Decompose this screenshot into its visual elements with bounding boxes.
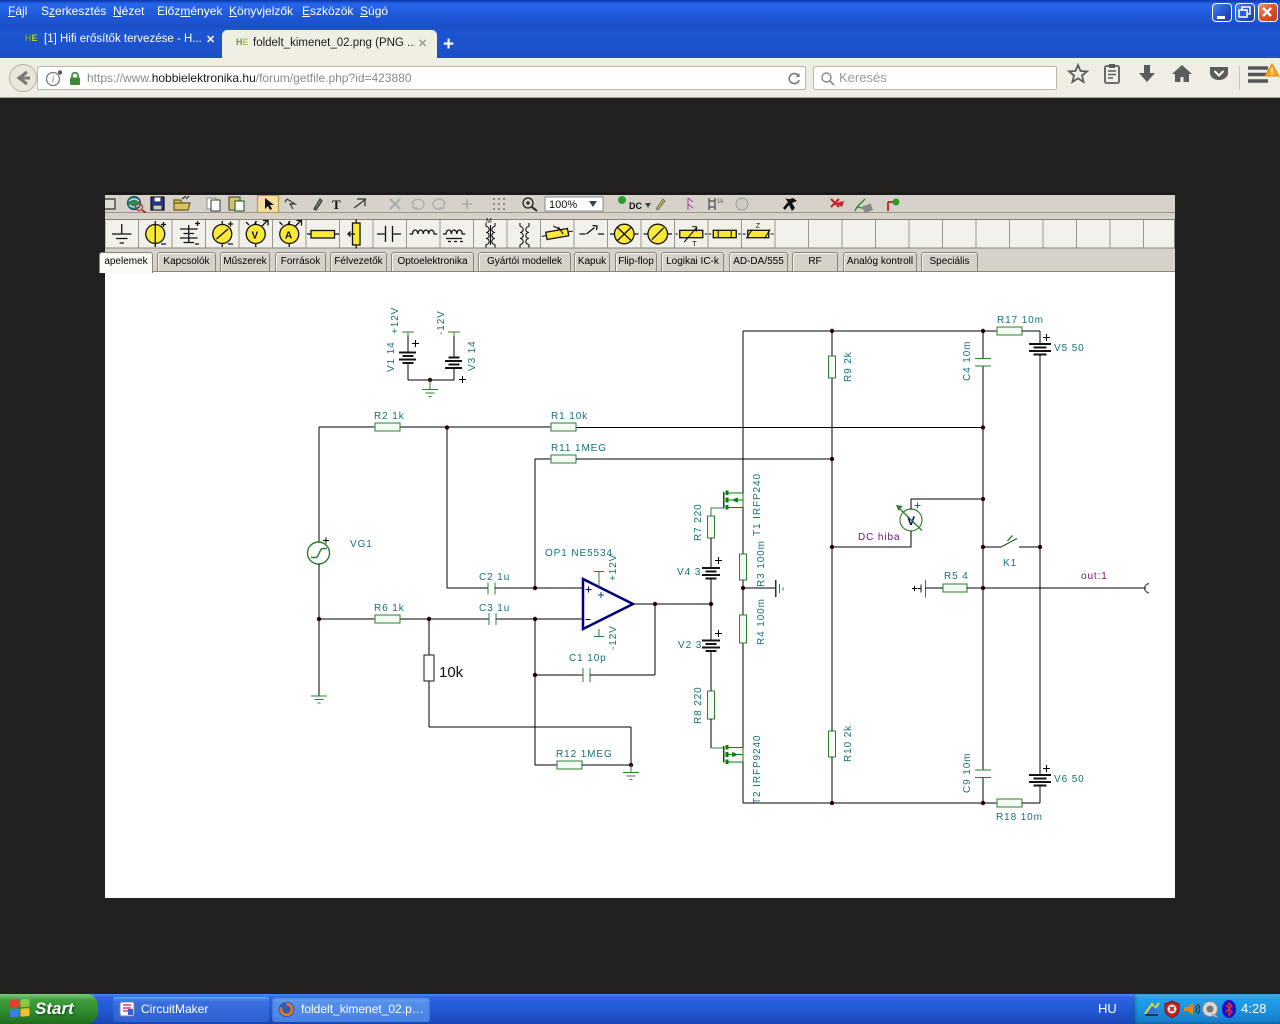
- svg-text:i: i: [52, 75, 55, 86]
- Tab strip: [0, 28, 1280, 58]
- wire voltmeter - lead: [830, 531, 911, 549]
- Navigation toolbar: [0, 58, 1280, 98]
- svg-text:-12V: -12V: [608, 625, 619, 650]
- svg-text:V6 50: V6 50: [1054, 774, 1085, 785]
- ground at VG1/R6: [311, 696, 327, 703]
- battery V4 3: [677, 557, 722, 604]
- svg-text:T1 IRFP240: T1 IRFP240: [752, 473, 763, 536]
- svg-text:A: A: [285, 231, 292, 242]
- resistor R5 4: [926, 571, 986, 592]
- svg-text:10k: 10k: [439, 664, 464, 681]
- resistor R9 2k: [829, 351, 855, 382]
- battery V2 3: [678, 604, 722, 691]
- ground at output node: [741, 580, 783, 597]
- resistor R2 1k: [374, 411, 405, 431]
- ground (supply common): [422, 378, 438, 397]
- svg-text:C9 10m: C9 10m: [962, 753, 973, 793]
- svg-text:K1: K1: [1003, 558, 1017, 569]
- battery V6 50: [1029, 765, 1085, 803]
- capacitor C1 10p: [533, 604, 655, 682]
- resistor R3 100m: [740, 540, 768, 587]
- resistor 10k (offset trim): [424, 655, 631, 765]
- wire voltmeter + lead: [911, 497, 985, 509]
- svg-text:!: !: [1271, 67, 1274, 77]
- svg-text:Z: Z: [756, 223, 761, 230]
- resistor R1 10k: [551, 411, 983, 431]
- svg-text:VG1: VG1: [350, 539, 373, 550]
- svg-text:V1 14: V1 14: [386, 341, 397, 372]
- svg-text:R12 1MEG: R12 1MEG: [556, 749, 613, 760]
- op-amp OP1 NE5534: [535, 548, 633, 650]
- svg-text:-12V: -12V: [436, 310, 447, 335]
- Firefox window title bar: [0, 0, 1280, 28]
- resistor R4 100m: [740, 598, 768, 645]
- resistor R11 1MEG (feedback): [535, 443, 834, 588]
- resistor R17 10m: [997, 315, 1044, 344]
- svg-text:R6 1k: R6 1k: [374, 603, 405, 614]
- node -input: [533, 617, 557, 765]
- svg-text:R9 2k: R9 2k: [843, 351, 854, 382]
- svg-text:R8 220: R8 220: [693, 686, 704, 724]
- wire sense rail with C4/C9: [982, 331, 984, 803]
- battery V1 (+12V supply): [386, 307, 430, 380]
- svg-text:100%: 100%: [549, 199, 577, 211]
- svg-text:C1 10p: C1 10p: [569, 653, 607, 664]
- svg-text:R11 1MEG: R11 1MEG: [551, 443, 607, 454]
- capacitor C3 1u: [479, 603, 510, 625]
- battery V3 (-12V supply): [430, 310, 478, 383]
- wire middle rail R9/R10: [831, 331, 833, 803]
- svg-text:+12V: +12V: [608, 554, 619, 581]
- svg-text:R2 1k: R2 1k: [374, 411, 405, 422]
- transistor T2 IRFP9240: [724, 735, 764, 804]
- svg-text:V2 3: V2 3: [678, 640, 702, 651]
- svg-text:T: T: [332, 197, 341, 212]
- resistor R8 220: [693, 686, 724, 748]
- capacitor C9 10m: [962, 753, 991, 793]
- svg-text:R5 4: R5 4: [944, 571, 969, 582]
- svg-text:R18 10m: R18 10m: [996, 812, 1043, 823]
- svg-text:C3 1u: C3 1u: [479, 603, 510, 614]
- svg-text:R10 2k: R10 2k: [843, 725, 854, 762]
- svg-text:DC: DC: [629, 201, 642, 211]
- voltmeter DC hiba: [858, 503, 922, 544]
- Windows taskbar: [0, 994, 1280, 1024]
- capacitor C2 1u: [447, 572, 583, 595]
- resistor R10 2k: [829, 725, 855, 762]
- node R6/10k junction: [427, 617, 431, 655]
- resistor R6 1k: [374, 603, 405, 623]
- svg-text:R17 10m: R17 10m: [997, 315, 1044, 326]
- svg-text:V3 14: V3 14: [467, 340, 478, 371]
- node A: R2/R1/C2 junction: [445, 425, 449, 588]
- svg-text:T2 IRFP9240: T2 IRFP9240: [752, 735, 763, 804]
- capacitor C4 10m: [962, 341, 991, 430]
- svg-text:R7 220: R7 220: [693, 503, 704, 541]
- source VG1: [308, 427, 373, 696]
- battery V5 50: [1029, 334, 1085, 775]
- node +input: [533, 586, 537, 590]
- ground at R12: [623, 765, 639, 780]
- wire output terminal out:1: [983, 571, 1149, 593]
- switch K1: [981, 536, 1042, 570]
- svg-text:OP1 NE5534: OP1 NE5534: [545, 548, 613, 559]
- transistor T1 IRFP240: [724, 473, 764, 536]
- svg-text:out:1: out:1: [1081, 571, 1108, 582]
- svg-text:V5 50: V5 50: [1054, 343, 1085, 354]
- resistor R7 220: [693, 503, 724, 568]
- svg-text:V4 3: V4 3: [677, 567, 701, 578]
- resistor R12 1MEG: [556, 749, 633, 769]
- svg-text:V: V: [252, 231, 259, 242]
- svg-text:R4 100m: R4 100m: [756, 598, 767, 645]
- wire inverting row: [319, 618, 583, 620]
- node VG1/R6: [317, 617, 321, 621]
- svg-text:C4 10m: C4 10m: [962, 341, 973, 381]
- svg-text:DC hiba: DC hiba: [858, 532, 900, 543]
- svg-text:M: M: [486, 218, 492, 225]
- resistor R18 10m: [983, 799, 1043, 823]
- svg-text:+12V: +12V: [390, 307, 401, 334]
- svg-text:R1 10k: R1 10k: [551, 411, 588, 422]
- wire left output rail: [742, 331, 744, 803]
- wire bottom rail: [743, 801, 985, 805]
- battery at R5 (offset source): [912, 580, 926, 598]
- wire input row: [319, 426, 551, 428]
- svg-text:C2 1u: C2 1u: [479, 572, 510, 583]
- svg-text:T: T: [692, 241, 697, 248]
- wire top rail: [743, 329, 997, 333]
- svg-text:R3 100m: R3 100m: [756, 540, 767, 587]
- op-amp output wire: [633, 602, 713, 606]
- svg-text:1k: 1k: [717, 199, 724, 205]
